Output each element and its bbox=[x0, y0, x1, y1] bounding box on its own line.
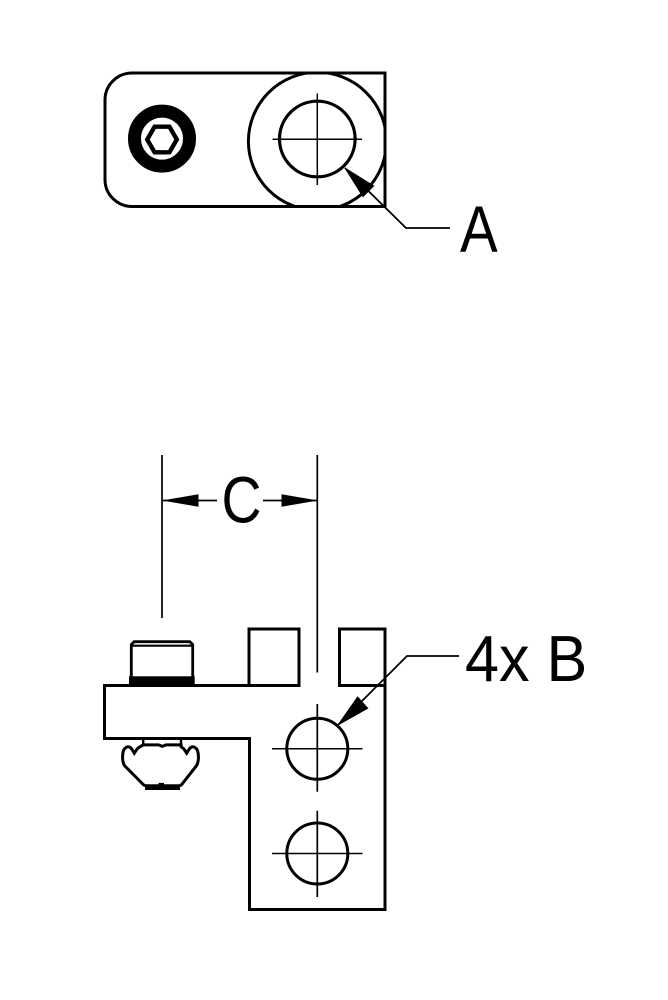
svg-text:4x B: 4x B bbox=[465, 623, 587, 695]
label A arrowhead bbox=[345, 168, 374, 197]
vertical centerline segment 1 (extension for C) bbox=[316, 455, 318, 673]
screw head (side view) bbox=[131, 642, 192, 677]
hole upper bbox=[287, 718, 348, 779]
screw washer flange (filled) bbox=[129, 676, 195, 684]
inner hole circle bbox=[280, 101, 356, 177]
swivel pad neck right bbox=[180, 740, 182, 745]
label 4xB arrowhead bbox=[338, 697, 368, 725]
boss outer circle (clipped by plate) bbox=[248, 72, 386, 210]
swivel pad outline bbox=[123, 745, 199, 786]
svg-text:A: A bbox=[460, 192, 498, 266]
label A leader line bbox=[345, 168, 450, 228]
vertical centerline segment 2 (through upper hole) bbox=[316, 704, 318, 792]
plate outline (rounded left corners) bbox=[105, 73, 385, 207]
label 4xB leader line bbox=[338, 656, 459, 725]
screw head chamfer line bbox=[132, 645, 193, 647]
swivel pad thick bottom bbox=[145, 785, 180, 790]
screw hex socket bbox=[147, 127, 177, 153]
left tab bbox=[249, 629, 299, 687]
hole lower crosshair horizontal bbox=[272, 853, 363, 855]
part outline (arm + body + right tab) bbox=[105, 629, 386, 910]
vertical centerline segment 3 (through lower hole) bbox=[316, 811, 318, 897]
dimension arrow right bbox=[282, 494, 319, 506]
hole crosshair horizontal bbox=[273, 138, 363, 140]
hole crosshair vertical bbox=[316, 94, 318, 186]
dimension line left segment bbox=[162, 500, 217, 502]
screw head ring (top view) bbox=[135, 111, 190, 166]
hole upper crosshair horizontal bbox=[272, 748, 363, 750]
swivel pad neck left bbox=[142, 740, 144, 745]
swivel pad bottom center tick bbox=[159, 783, 165, 785]
dimension arrow left bbox=[162, 494, 199, 506]
svg-text:C: C bbox=[222, 463, 262, 537]
hole lower bbox=[287, 823, 348, 884]
dimension line right segment bbox=[263, 500, 318, 502]
extension line left (screw centerline) bbox=[161, 455, 163, 618]
